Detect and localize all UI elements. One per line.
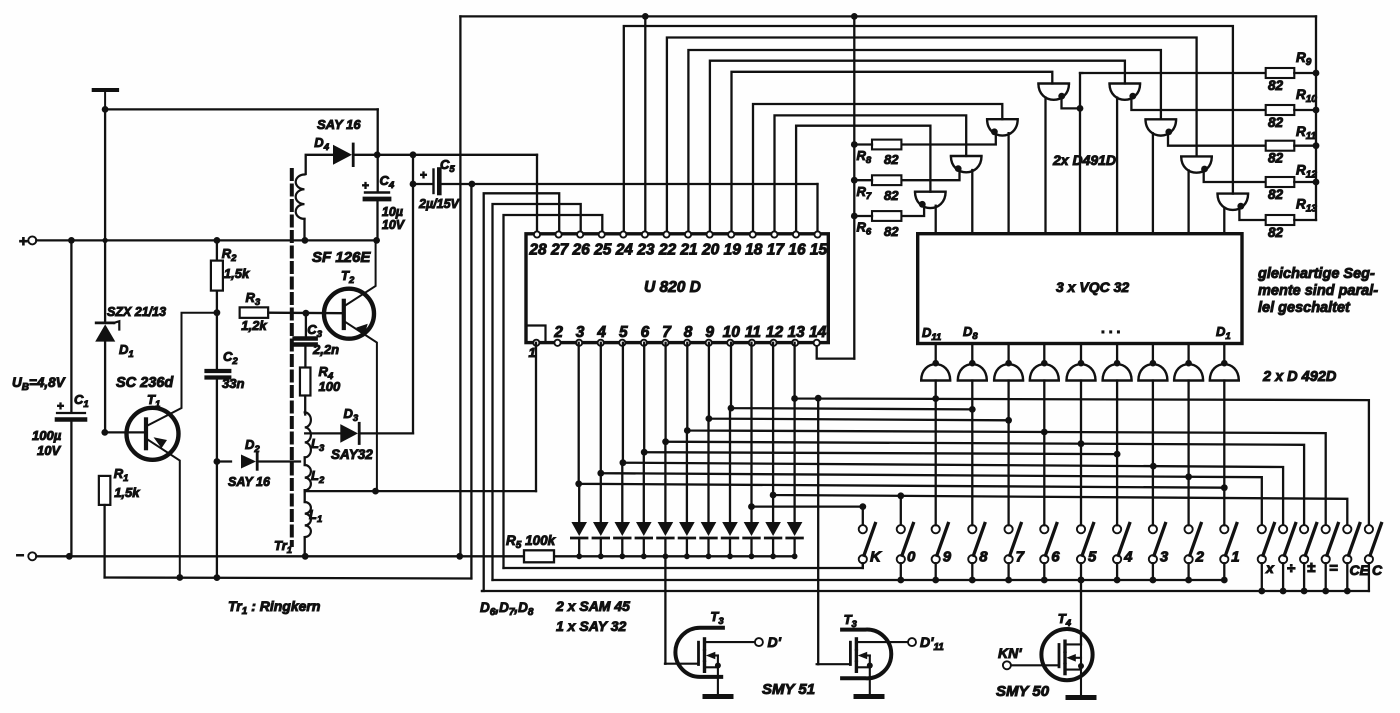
svg-text:±: ± [1307, 559, 1316, 576]
wire: mesh line L4 pin8 to switch = [687, 343, 1325, 525]
svg-text:6: 6 [1051, 549, 1060, 566]
resistor R11 82 [1266, 141, 1295, 151]
svg-text:SMY 51: SMY 51 [762, 681, 815, 698]
wire: minus net vertical (line A left end) [459, 16, 461, 556]
svg-text:10µ: 10µ [382, 205, 403, 219]
svg-text:KN': KN' [998, 645, 1022, 661]
wire: L3-L2 junction to D2 [304, 457, 306, 465]
svg-text:x: x [1265, 560, 1275, 576]
svg-text:7: 7 [1016, 549, 1025, 566]
switch 0 [897, 525, 905, 533]
svg-text:4: 4 [1123, 549, 1133, 566]
switch 9 [932, 525, 940, 533]
and gate U5c (D492D) [1007, 344, 1009, 364]
svg-text:÷: ÷ [1287, 560, 1296, 577]
svg-text:SMY 50: SMY 50 [996, 683, 1050, 700]
svg-text:1: 1 [529, 345, 536, 360]
wire: U5b output to keyboard [971, 381, 973, 526]
wire: U6d output to keyboard [1187, 381, 1189, 526]
wire: T3 gate lead [665, 663, 699, 665]
svg-text:11: 11 [745, 324, 761, 341]
svg-text:82: 82 [884, 152, 899, 167]
svg-text:2: 2 [553, 324, 563, 341]
wire: G5 output step to R13 [1239, 208, 1265, 220]
wire: mesh line L5 pin7 to switch +- [666, 343, 1305, 525]
wire: vertical ground rail down to D1 chain [104, 109, 106, 240]
ground bar T3 second [856, 694, 882, 699]
svg-text:82: 82 [884, 188, 899, 203]
wire: mesh line L3 pin9 to gate7 [709, 343, 1009, 421]
svg-text:82: 82 [1268, 151, 1284, 166]
wire: C5 line to pin 15 [413, 183, 432, 185]
wire: switch 0 feed [900, 496, 902, 525]
capacitor C2 33n [207, 369, 230, 373]
svg-text:5: 5 [1088, 549, 1097, 566]
switch 2 [1185, 525, 1193, 533]
wire: pin 15 riser [816, 184, 818, 234]
wire: top rail ground to C4 [105, 108, 378, 110]
svg-text:0: 0 [907, 549, 916, 566]
nand gate U3d (D491D) [915, 192, 946, 208]
svg-text:SF 126E: SF 126E [312, 249, 371, 266]
wire: G1 output step to R9 [1062, 73, 1083, 108]
svg-text:16: 16 [788, 242, 806, 259]
switch ± [1300, 525, 1308, 533]
svg-text:lel geschaltet: lel geschaltet [1258, 300, 1351, 316]
svg-text:2: 2 [1195, 549, 1205, 566]
wire: T4 drain from digit bus [1065, 643, 1081, 645]
wire: pin 1 dropper to transformer tap line [535, 343, 537, 491]
wire: left supply rail (bottom) [105, 578, 472, 579]
nand gate U2b (D491D) [1110, 84, 1141, 100]
transistor T3 first body arc [675, 628, 723, 677]
svg-text:1,5k: 1,5k [224, 266, 250, 281]
wire: G2 output step to R10 [1131, 98, 1265, 111]
switch C [1365, 525, 1373, 533]
switch = [1322, 525, 1330, 533]
wire: T4 substrate and source to ground [1066, 654, 1076, 662]
svg-text:28: 28 [528, 242, 547, 259]
ground bar T3 first [705, 694, 731, 699]
wire: pin 21 line to gate G3 [688, 50, 1161, 234]
switch 5 [1077, 525, 1085, 533]
wire: K bottom stub [862, 563, 864, 568]
svg-text:1,2k: 1,2k [241, 318, 267, 333]
svg-text:26: 26 [572, 242, 591, 259]
resistor R13 82 [1266, 215, 1295, 225]
svg-text:10V: 10V [382, 218, 406, 232]
transformer winding L2 [305, 465, 311, 490]
wire: pin 16 line to gate G8 [796, 126, 930, 234]
svg-text:100: 100 [319, 379, 341, 394]
wire: mesh line L10 pin12 to switch CE [773, 343, 1347, 525]
wire: U3b (D491D) output jog to resistor [901, 133, 995, 144]
wire: U5d output to keyboard [1043, 381, 1045, 526]
svg-text:3: 3 [1160, 549, 1169, 566]
diode D2 SAY16 [217, 460, 231, 462]
resistor R12 82 [1266, 177, 1295, 187]
wire: T4 drain riser from digit bus [1080, 580, 1082, 644]
wire: G3 output step to R11 [1168, 133, 1266, 145]
resistor R9 82 [1266, 68, 1295, 78]
svg-text:17: 17 [767, 242, 786, 259]
node: ground junction [102, 106, 109, 113]
svg-text:23: 23 [636, 242, 655, 259]
wire: D3 cathode riser to C5 line [412, 155, 414, 434]
svg-text:K: K [870, 549, 882, 566]
wire: T3b gate riser from mesh L1 [817, 398, 819, 664]
node: R9-R12 right bus dots [1313, 70, 1320, 77]
transformer Tr1 core (dashed) [290, 170, 294, 545]
wire: T3 substrate and source to ground [706, 652, 716, 660]
wire: pin 17 line to gate G7 [775, 115, 967, 234]
svg-text:82: 82 [1268, 115, 1284, 130]
wire: mesh line L8 pin4 to switch x [601, 343, 1262, 525]
svg-text:10V: 10V [37, 443, 61, 458]
svg-text:4: 4 [596, 324, 606, 341]
wire: pin 22 line to gate G4 [667, 38, 1197, 235]
wire: mesh line L9 pin3 to gate1 [579, 343, 1225, 488]
resistor R6 82 [872, 211, 901, 221]
wire: left rail riser to C5 node [470, 184, 472, 579]
wire: pin 24 line to gate G5 [624, 26, 1233, 234]
wire: K-switch bottom line [504, 563, 863, 568]
wire: pin 26 to digit bus riser [493, 204, 581, 580]
switch CE [1343, 525, 1351, 533]
wire: mesh line L6 pin6 to gate4 [644, 343, 1117, 454]
nand gate U2d (D491D) [1181, 156, 1212, 172]
svg-text:D': D' [768, 634, 782, 650]
switch 3 [1149, 525, 1157, 533]
switch x [1258, 525, 1266, 533]
IC U4 3x VQC32 display body [918, 234, 1242, 344]
svg-text:25: 25 [593, 242, 612, 259]
wire: U6c output to keyboard [1152, 381, 1154, 526]
transistor T4 body circle [1041, 629, 1092, 680]
svg-text:27: 27 [550, 242, 570, 259]
resistor R3 1,2k [240, 307, 269, 318]
svg-text:21: 21 [679, 242, 697, 259]
wire: T3 drain to D' terminal [705, 641, 755, 643]
wire: mesh line L7 pin5 to switch divide [623, 343, 1283, 525]
wire: U6b output to keyboard [1116, 381, 1118, 526]
svg-text:2x D491D: 2x D491D [1052, 152, 1116, 168]
svg-text:−: − [16, 547, 24, 563]
svg-text:82: 82 [1268, 187, 1284, 202]
node: D4/C4/ground-rail/pin28 junction [374, 151, 381, 158]
wire: T1 emitter with arrow [148, 440, 180, 578]
switch ÷ [1279, 525, 1287, 533]
transformer winding L3 [305, 412, 311, 457]
wire: U3c (D491D) output jog to resistor [901, 170, 959, 180]
wire: U5c output to keyboard [1007, 381, 1009, 526]
wire: T3b gate lead [817, 663, 851, 665]
svg-text:7: 7 [662, 324, 672, 341]
capacitor C1 electrolytic [70, 240, 72, 411]
svg-text:5: 5 [619, 324, 628, 341]
wire: + rail [36, 239, 377, 241]
wire: line A right drop to R9-R13 bus [1315, 16, 1317, 220]
svg-text:SZX 21/13: SZX 21/13 [107, 305, 166, 319]
wire: pin 23 riser to line A [644, 16, 646, 234]
svg-text:9: 9 [705, 324, 714, 341]
svg-text:8: 8 [979, 549, 988, 566]
wire: T2 emitter to transformer tap [345, 322, 377, 491]
wire: T1 base [105, 431, 144, 433]
wire: U3d (D491D) output jog to resistor [901, 206, 924, 216]
svg-text:mente sind paral-: mente sind paral- [1258, 283, 1378, 299]
svg-text:22: 22 [658, 242, 677, 259]
wire: U6a output to keyboard [1080, 381, 1082, 526]
wire: diode droppers from mesh corners [578, 484, 580, 523]
svg-text:82: 82 [1268, 78, 1284, 93]
wire: pin 27 to function-key bus riser [482, 193, 559, 591]
svg-text:SAY32: SAY32 [331, 447, 373, 462]
transformer winding L1 [304, 491, 306, 502]
svg-text:6: 6 [641, 324, 650, 341]
IC U820D bottom pin circles 1-14 [533, 340, 539, 346]
wire: T3 gate riser from diode 7 column [664, 556, 666, 663]
resistor R4 100 [300, 368, 311, 396]
nand gate U3c (D491D) [951, 156, 982, 172]
wire: mesh line L1 pin13 to switch C [795, 343, 1369, 525]
transformer feedback winding (top) [296, 175, 305, 219]
svg-text:2 x D 492D: 2 x D 492D [1262, 369, 1337, 385]
svg-text:1: 1 [1231, 549, 1239, 566]
nand gate U3b (D491D) [987, 119, 1018, 135]
wire: T3b drain to D'11 terminal [856, 641, 908, 643]
node: C2/D2 junction [214, 458, 221, 465]
wire: T4 gate lead from KN' terminal [1011, 664, 1059, 666]
svg-text:3 x VQC 32: 3 x VQC 32 [1056, 279, 1129, 295]
svg-text:2µ/15V: 2µ/15V [418, 197, 461, 211]
svg-text:2 x SAM 45: 2 x SAM 45 [555, 598, 630, 614]
svg-text:2,2n: 2,2n [312, 342, 339, 357]
switch 1 [1220, 525, 1228, 533]
wire: T3b substrate and source to ground [858, 652, 868, 660]
svg-text:10: 10 [723, 324, 741, 341]
IC U820D pin-1 notch [526, 326, 546, 343]
svg-text:8: 8 [684, 324, 693, 341]
and gate U5b (D492D) [971, 344, 973, 364]
IC U1 U820D body [526, 234, 828, 343]
svg-text:3: 3 [576, 324, 585, 341]
svg-text:C: C [1372, 562, 1383, 578]
and gate U5d (D492D) [1043, 344, 1045, 364]
svg-text:1,5k: 1,5k [114, 485, 140, 500]
svg-text:82: 82 [884, 224, 899, 239]
resistor R10 82 [1266, 105, 1295, 115]
svg-text:24: 24 [615, 242, 634, 259]
svg-text:12: 12 [766, 324, 784, 341]
wire: pin 28 riser [536, 155, 538, 234]
svg-text:82: 82 [1268, 225, 1284, 240]
wire: common rail vertical x=854 [853, 16, 855, 358]
svg-text:CE: CE [1350, 562, 1370, 578]
resistor R8 82 [872, 140, 901, 150]
wire: pin 19 line to gate G1 [732, 72, 1053, 234]
node: R2/C2/R3/T1-collector junction [214, 309, 221, 316]
wire: line A top bus (minus net) [460, 15, 1316, 17]
wire: mesh line L2 pin10 to gate8 [731, 343, 972, 410]
and gate U6c (D492D) [1152, 344, 1154, 364]
nand gate U2a (D491D) [1038, 84, 1069, 100]
nand gate U3a (D491D) [1218, 194, 1249, 210]
resistor R1 1,5k [99, 476, 111, 505]
svg-text:. . .: . . . [1101, 320, 1120, 336]
resistor R2 1,5k [216, 240, 218, 261]
wire: pin 18 line to gate G6 [753, 104, 1002, 234]
wire: digit common bus [493, 579, 1225, 581]
zener diode D1 SZX21/13 [104, 240, 106, 323]
switch 7 [1005, 525, 1013, 533]
nand gate U2c (D491D) [1146, 119, 1177, 135]
and gate U6e (D492D) [1223, 344, 1225, 364]
svg-text:14: 14 [809, 324, 827, 341]
IC U820D top pin circles 28-15 [534, 231, 540, 237]
and gate U6a (D492D) [1080, 344, 1082, 364]
svg-text:+: + [19, 233, 28, 250]
svg-text:+: + [362, 179, 369, 193]
svg-text:13: 13 [787, 324, 805, 341]
resistor R7 82 [872, 175, 901, 185]
svg-text:U 820 D: U 820 D [644, 279, 701, 296]
wire: G1 output drop to VQC32 [1079, 108, 1081, 233]
svg-text:1 x SAY 32: 1 x SAY 32 [556, 618, 627, 634]
transistor T3 second body arc [842, 630, 891, 679]
svg-text:SAY 16: SAY 16 [317, 117, 361, 132]
ground bar T4 [1068, 695, 1094, 700]
wire: G4 output step to R12 [1204, 170, 1266, 182]
switch 6 [1040, 525, 1048, 533]
svg-text:18: 18 [745, 242, 763, 259]
wire: U6e output to keyboard [1223, 381, 1225, 526]
svg-text:20: 20 [701, 242, 720, 259]
wire: mesh line L11 pin11 to switch K [752, 343, 863, 525]
capacitor C4 10u electrolytic [377, 109, 379, 191]
svg-text:33n: 33n [222, 376, 244, 391]
terminal KN' [1003, 661, 1011, 669]
svg-text:19: 19 [724, 242, 742, 259]
wire: pin 14 jog to rail [817, 346, 855, 359]
wire: R3 line to T2 base [268, 312, 342, 315]
node: transformer tap to T2 emitter and pin 1 [305, 490, 536, 492]
switch 8 [968, 525, 976, 533]
diode row D6,D7,D8 (11 diodes) [571, 522, 587, 536]
switch 4 [1113, 525, 1121, 533]
svg-text:gleichartige Seg-: gleichartige Seg- [1257, 266, 1375, 282]
wire: pin 25 to K-switch riser [504, 215, 603, 568]
wire: pin 28 supply line [377, 154, 537, 156]
svg-text:=: = [1329, 560, 1338, 577]
wire: pin 20 line to gate G2 [710, 61, 1125, 234]
svg-text:+: + [420, 168, 427, 182]
svg-text:+: + [57, 399, 64, 413]
wire: T1 collector to R3 node [148, 313, 217, 426]
wire: T2 collector to +rail [345, 240, 375, 305]
svg-text:SC 236d: SC 236d [116, 375, 174, 391]
wire: U5a output to keyboard [935, 381, 937, 526]
and gate U6d (D492D) [1187, 344, 1189, 364]
node: mesh corner dots on pin droppers [791, 395, 798, 402]
and gate U6b (D492D) [1116, 344, 1118, 364]
svg-text:100µ: 100µ [32, 428, 62, 443]
svg-text:SAY 16: SAY 16 [228, 475, 271, 489]
wire: function common bus [482, 590, 1369, 592]
switch K [859, 525, 867, 533]
wire: minus rail to diode row [36, 555, 794, 557]
and gate U5a (D492D) [935, 344, 937, 364]
ground symbol (chassis bar) top left [94, 88, 117, 92]
svg-text:9: 9 [943, 549, 952, 566]
capacitor C3 2,2n [305, 313, 307, 338]
svg-text:15: 15 [810, 242, 828, 259]
